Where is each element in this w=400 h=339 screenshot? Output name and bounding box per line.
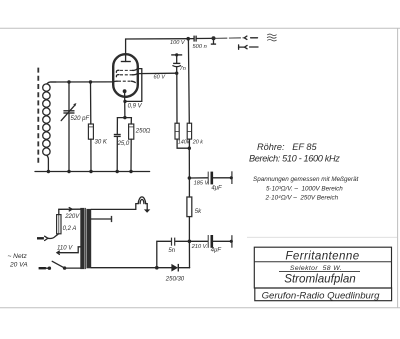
wire down to 185V [188, 148, 190, 178]
svg-text:220V: 220V [64, 214, 80, 220]
node coil-ground [47, 170, 50, 173]
capacitor 4uF lower [189, 235, 233, 248]
wire cathode split [117, 117, 131, 119]
svg-text:5n: 5n [168, 248, 175, 254]
svg-text:0,2 A: 0,2 A [63, 226, 77, 232]
svg-text:185 V.: 185 V. [194, 181, 210, 187]
scan paper top edge [0, 27, 400, 29]
node 185V [188, 176, 192, 180]
svg-text:4μF: 4μF [211, 248, 222, 254]
svg-text:30 K: 30 K [95, 140, 108, 146]
svg-text:20 k: 20 k [192, 139, 203, 145]
svg-text:0,9 V: 0,9 V [128, 103, 143, 109]
capacitor 4uF upper [189, 171, 233, 184]
ferrite rod (dashed) [37, 68, 39, 164]
transformer primary winding [80, 208, 84, 269]
node switch [48, 267, 51, 270]
svg-text:4μF: 4μF [211, 185, 222, 191]
title rule 1 [254, 261, 391, 263]
wire to 5k [188, 178, 190, 197]
wire dashed to plug row1 [215, 37, 244, 40]
tube EF85 envelope [113, 54, 138, 97]
wire cathode lead [124, 91, 126, 117]
wire coil top lead [47, 82, 56, 84]
wire screen 60V line [137, 72, 177, 74]
switch blade [52, 261, 64, 268]
node grid/C520 [67, 80, 70, 83]
node blade [63, 266, 66, 269]
node 210V [188, 240, 192, 244]
anode plate [121, 61, 131, 63]
svg-text:110 V: 110 V [57, 246, 73, 252]
switch contact upper [45, 234, 59, 241]
terminal antenna output [211, 36, 216, 44]
wire 110V tap [57, 247, 80, 255]
svg-text:210 V.: 210 V. [191, 244, 208, 250]
capacitor 5n [157, 238, 190, 268]
node cathode/shield [123, 100, 126, 103]
svg-text:250/30: 250/30 [165, 276, 185, 282]
svg-text:25,0: 25,0 [117, 141, 130, 147]
wire grid line [51, 81, 114, 83]
wire secondary bottom [91, 267, 157, 269]
wire heater right down [146, 204, 148, 210]
arrow 220V tap [69, 208, 72, 211]
transformer secondary winding [87, 209, 92, 268]
wire g3-cathode shield loop [125, 69, 142, 102]
resistor 250ohm [129, 118, 134, 174]
node grid/R30k [89, 80, 92, 83]
resistor 20k [187, 123, 191, 148]
svg-text:Röhre: EF 85: Röhre: EF 85 [257, 142, 317, 152]
transformer core [85, 208, 87, 269]
grid g1 (dashed) [113, 81, 135, 82]
antenna coil L1 [43, 84, 50, 155]
svg-text:2·10⁴Ω/V – 250V Bereich: 2·10⁴Ω/V – 250V Bereich [265, 195, 339, 202]
node diode left [155, 266, 159, 270]
cathode [123, 89, 127, 93]
title rule selektor [279, 271, 360, 273]
svg-text:7n: 7n [180, 66, 186, 72]
wire 220V tap [59, 208, 81, 210]
wire 60V down [176, 73, 178, 123]
node wavy marks [267, 34, 276, 41]
title box outer [254, 247, 391, 288]
fuse 0,2A [57, 209, 61, 234]
svg-text:Selektor 58 W.: Selektor 58 W. [290, 265, 342, 272]
svg-text:60 V: 60 V [154, 74, 167, 80]
wire 5k to 210V [188, 217, 190, 242]
svg-text:520 pF: 520 pF [71, 116, 90, 122]
node anode 100V [186, 37, 190, 41]
wire 100V down [187, 39, 190, 124]
resistor 140k [175, 123, 189, 148]
capacitor 7n screen bypass [171, 53, 182, 73]
title box lower [255, 288, 392, 301]
svg-text:~ Netz: ~ Netz [8, 253, 28, 260]
ground arrow [144, 209, 150, 212]
node 60V [175, 72, 178, 75]
svg-text:Spannungen gemessen mit Meßger: Spannungen gemessen mit Meßgerät [253, 176, 359, 183]
svg-text:Bereich: 510 - 1600 kHz: Bereich: 510 - 1600 kHz [249, 154, 340, 164]
resistor 30K [88, 82, 93, 173]
terminal mains upper [37, 237, 44, 239]
scan paper right edge [397, 28, 399, 308]
node cathode split [123, 116, 126, 119]
capacitor 520pF (variable) [61, 82, 76, 173]
heater lamp arcs [138, 197, 146, 204]
capacitor 500n [188, 36, 211, 42]
wire to switch [46, 267, 50, 269]
svg-text:140k: 140k [178, 139, 190, 145]
svg-text:250Ω: 250Ω [135, 129, 151, 135]
terminal mid tap [111, 216, 113, 222]
capacitor 25uF [114, 118, 121, 174]
connector plug row1 [244, 36, 247, 39]
scan paper bottom edge [0, 307, 400, 309]
svg-text:20 VA: 20 VA [9, 262, 28, 269]
grid g2 (dashed) [116, 74, 137, 77]
svg-text:5k: 5k [195, 209, 202, 215]
grid g3 (dashed) [116, 69, 141, 73]
svg-text:Ferritantenne: Ferritantenne [285, 250, 359, 263]
connector plug row2 [239, 45, 258, 49]
svg-text:100 V: 100 V [170, 40, 186, 46]
wire to transformer primary bottom [65, 267, 81, 269]
diode 250/30 [157, 241, 190, 271]
scan fold line [247, 236, 397, 238]
terminal mains lower [39, 267, 46, 269]
node resistor join [188, 147, 191, 150]
svg-text:Gerufon-Radio Quedlinburg: Gerufon-Radio Quedlinburg [262, 290, 381, 301]
svg-text:Stromlaufplan: Stromlaufplan [284, 272, 356, 285]
resistor 5k [187, 197, 192, 217]
ground bus [35, 171, 150, 173]
wire secondary top to heater [91, 204, 138, 210]
wire secondary mid tap [91, 218, 111, 220]
wire anode lead [126, 39, 189, 62]
wire coil bottom lead [47, 155, 49, 171]
svg-text:5·10³Ω/V. – 1000V Bereich: 5·10³Ω/V. – 1000V Bereich [266, 185, 343, 192]
svg-text:500 n: 500 n [193, 44, 207, 50]
